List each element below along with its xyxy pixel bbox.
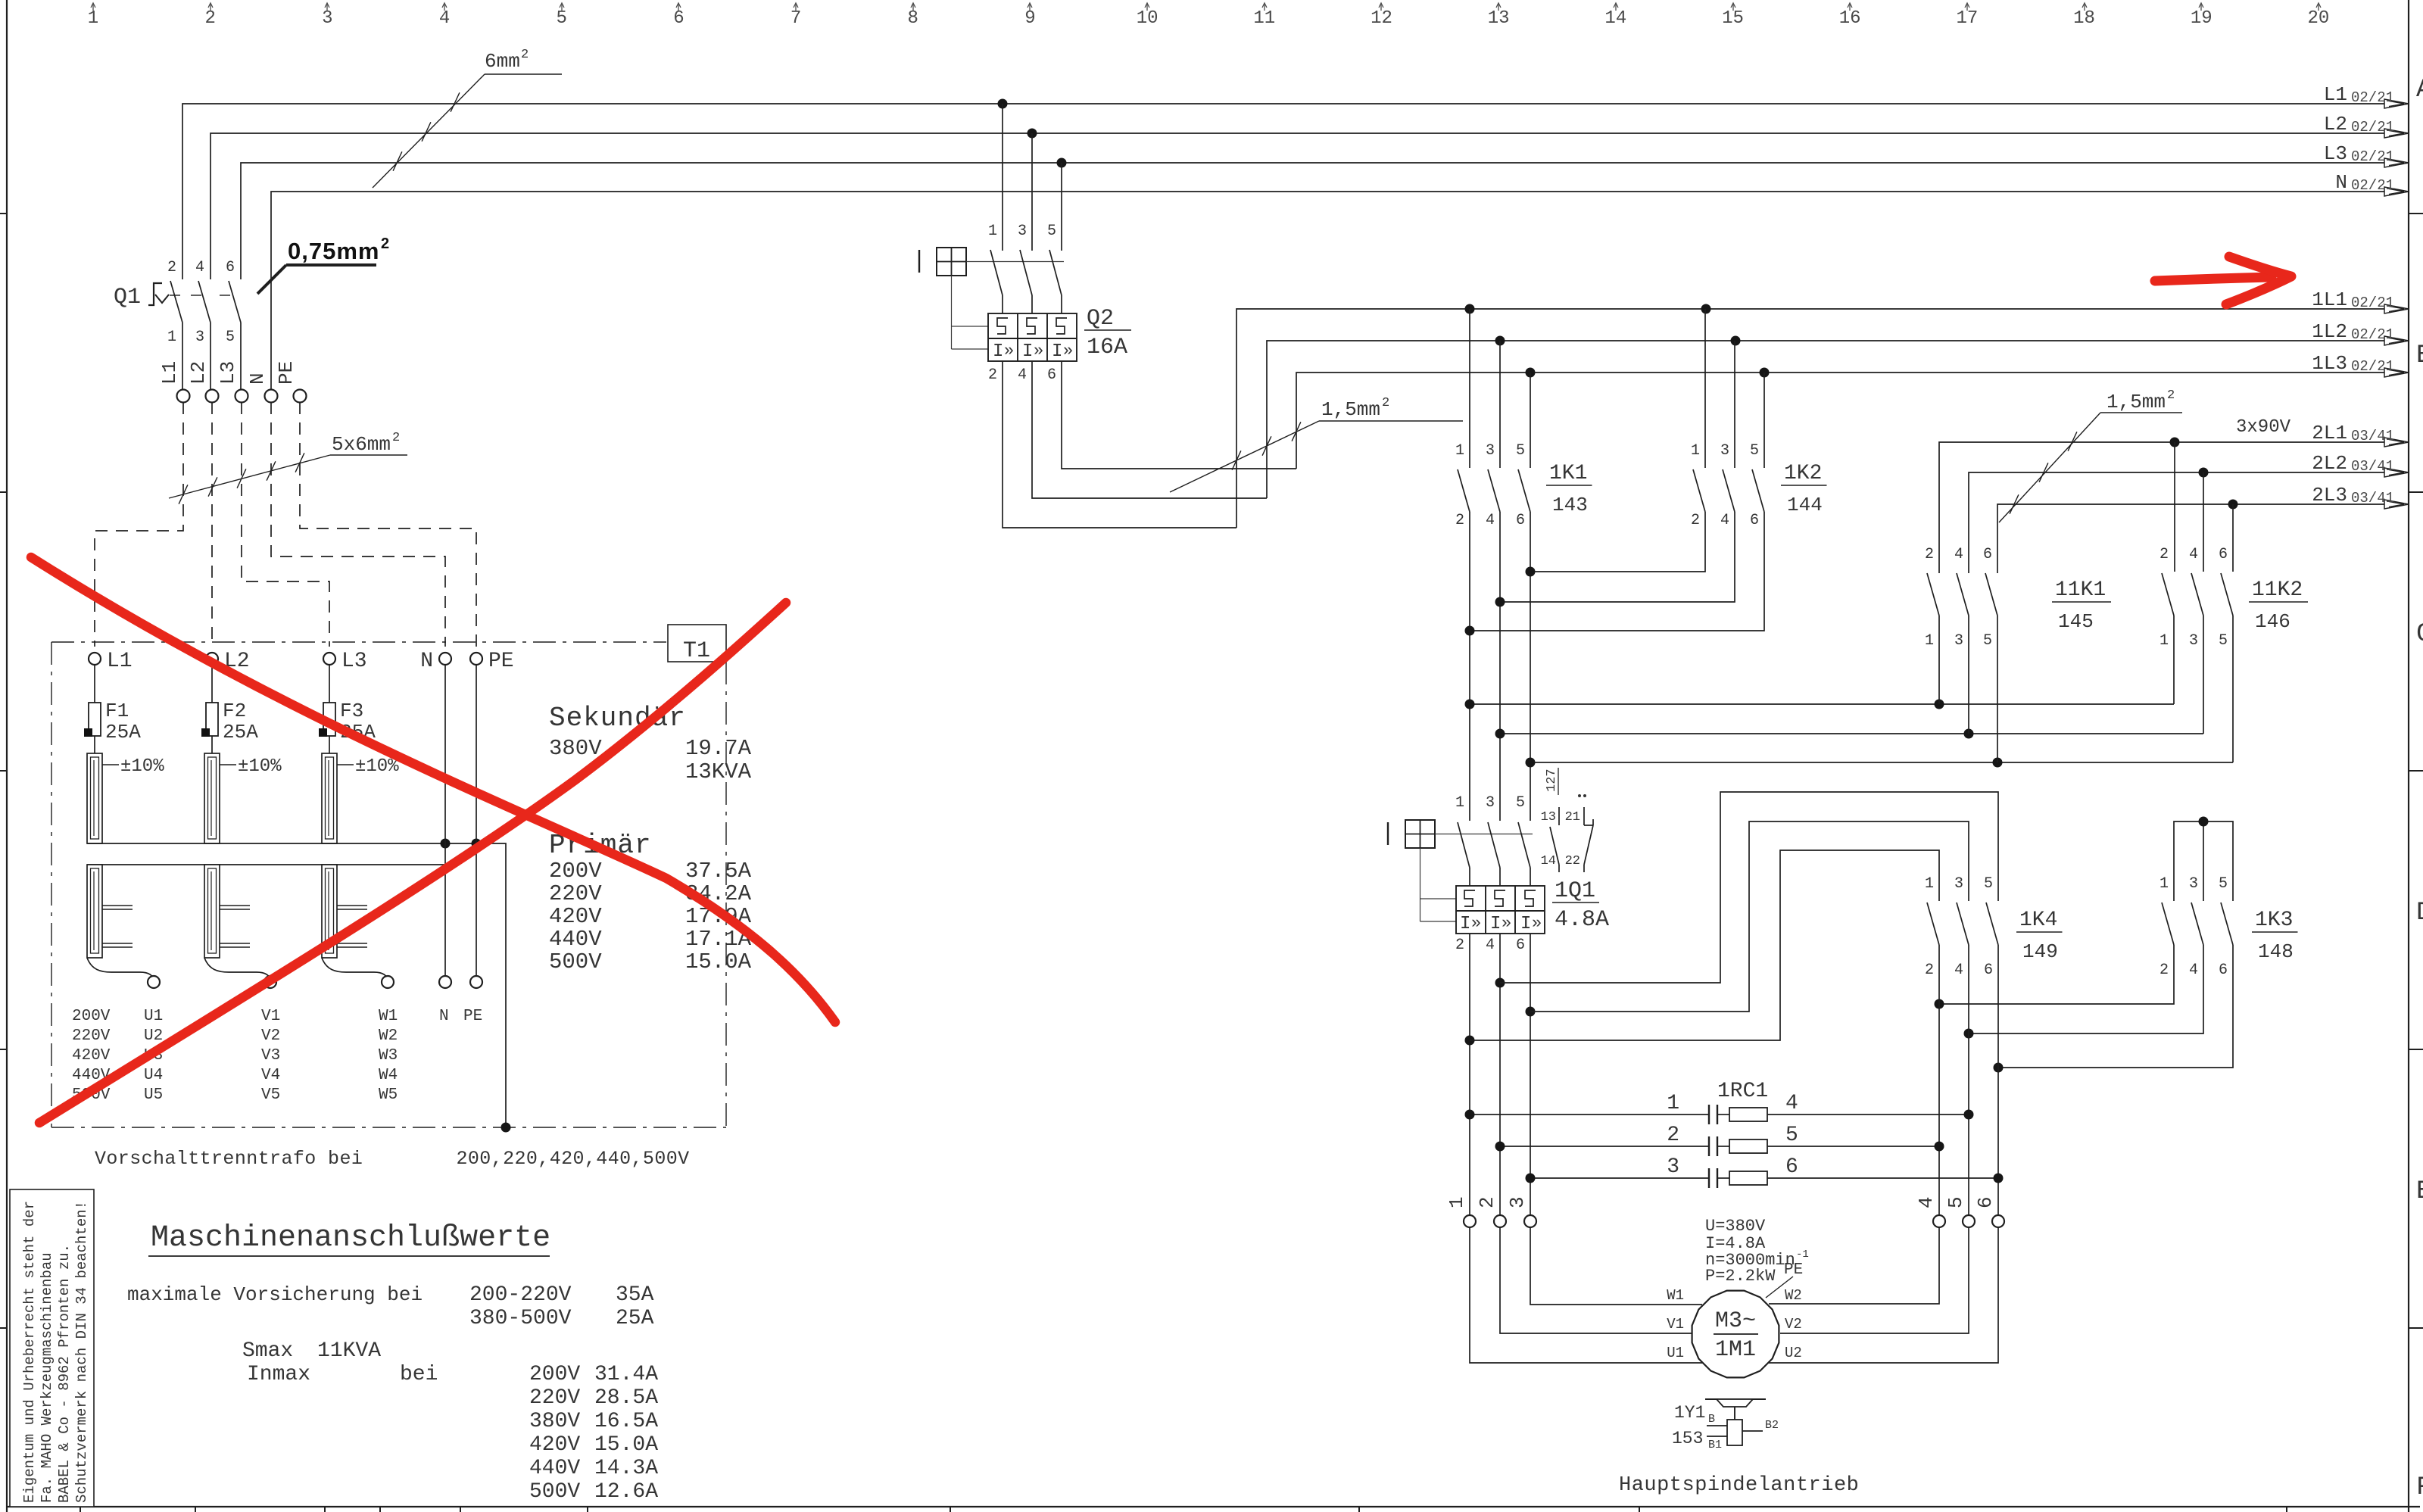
property note box [10, 1189, 94, 1507]
wire 1Q1-2 to 1K4 pin1 [1470, 850, 1939, 1040]
transformer primary winding 1 [87, 753, 102, 843]
svg-text:Schutzvermerk nach DIN 34 beac: Schutzvermerk nach DIN 34 beachten! [73, 1201, 90, 1503]
svg-text:2: 2 [1667, 1124, 1679, 1147]
svg-text:3x90V: 3x90V [2236, 417, 2291, 438]
Q2 pole 3 thermal element [1056, 318, 1067, 334]
junction at T1 box bottom [501, 1123, 511, 1133]
contactor 1K4 pole 2 blade [1957, 903, 1969, 945]
svg-text:18: 18 [2073, 8, 2095, 29]
svg-text:6: 6 [1750, 512, 1759, 529]
dashed wire PE to T1 [300, 402, 476, 647]
contactor 11K2 pole 3 blade [2221, 573, 2233, 616]
svg-text:7: 7 [791, 8, 801, 29]
terminal circle PE [294, 390, 307, 403]
svg-text:16.5A: 16.5A [594, 1410, 658, 1433]
svg-text:6: 6 [226, 259, 235, 276]
contactor 1K4 pole 1 blade [1927, 903, 1939, 945]
RC branch 3-6 wire [1530, 1177, 1709, 1179]
Q2 pole 2 blade [1020, 250, 1032, 295]
svg-text:B2: B2 [1765, 1419, 1779, 1432]
svg-text:W1: W1 [1667, 1287, 1684, 1304]
annotation 1,5mm2 leader (2L wires) [1999, 413, 2100, 522]
svg-text:Maschinenanschlußwerte: Maschinenanschlußwerte [151, 1221, 550, 1255]
svg-text:F3: F3 [340, 700, 363, 722]
wire bus 1L2 [1267, 341, 2409, 498]
svg-text:C: C [2416, 620, 2423, 649]
svg-text:2: 2 [1455, 937, 1464, 954]
svg-text:1: 1 [1691, 442, 1700, 460]
svg-text:02/21: 02/21 [2351, 295, 2394, 311]
svg-text:11KVA: 11KVA [317, 1339, 381, 1363]
junction L3/Q2 [1057, 158, 1067, 168]
svg-text:2: 2 [521, 48, 529, 62]
svg-text:U1: U1 [144, 1008, 163, 1025]
svg-text:I: I [1460, 914, 1470, 934]
wire 1Q1-4 to 1K4 pin5 [1500, 792, 1998, 983]
wire 1Q1 pin2 down to motor terminal 1 [1469, 934, 1470, 1215]
arrow 1L1 to 02/21 [2384, 304, 2409, 313]
wire L feed to Q2 pin 5 [1061, 163, 1062, 251]
svg-text:A: A [2416, 76, 2423, 104]
svg-text:1K2: 1K2 [1784, 462, 1822, 485]
svg-text:21: 21 [1565, 810, 1580, 825]
1Q1 operator square [1405, 820, 1435, 848]
Q1 actuator symbol [148, 283, 162, 305]
svg-text:PE: PE [488, 650, 514, 673]
svg-text:2L1: 2L1 [2312, 422, 2347, 444]
transformer T1 dashed enclosure [51, 641, 666, 643]
svg-text:4: 4 [1954, 546, 1963, 563]
1Q1 pole 2 blade [1488, 822, 1500, 868]
svg-text:1Q1: 1Q1 [1555, 878, 1595, 904]
svg-text:12.6A: 12.6A [594, 1480, 658, 1504]
junction 2L2/11K2 [2199, 468, 2209, 478]
svg-text:145: 145 [2058, 610, 2094, 633]
svg-text:L1: L1 [158, 361, 181, 385]
svg-text:3: 3 [1506, 1196, 1529, 1208]
red cross-out stroke 1 [31, 557, 835, 1022]
arrow N to 02/21 [2384, 187, 2409, 196]
svg-text:3: 3 [1667, 1155, 1679, 1179]
svg-text:4: 4 [1018, 366, 1027, 384]
svg-text:220V: 220V [72, 1027, 111, 1045]
contactor 1K1 pole 3 blade [1518, 469, 1530, 512]
wire 1K1 outputs down-column 6 [1530, 512, 1531, 821]
Q2 trip linkage [951, 276, 953, 349]
svg-text:P=2.2kW: P=2.2kW [1705, 1267, 1776, 1286]
annotation 1,5mm2 leader (Q2 wires) [1170, 421, 1319, 492]
svg-text:220V: 220V [529, 1386, 580, 1410]
svg-text:4: 4 [1785, 1092, 1798, 1115]
wire bus L2 [210, 133, 2409, 279]
svg-text:B: B [1708, 1413, 1715, 1426]
wire bus L3 [241, 163, 2409, 279]
motor PE leader [1766, 1277, 1793, 1298]
transformer secondary winding 3 [322, 865, 337, 958]
1Q1 pole 1 thermal element [1464, 890, 1475, 906]
svg-text:B1: B1 [1708, 1439, 1722, 1451]
svg-text:5: 5 [1516, 794, 1525, 812]
contactor 1K3 pole 3 blade [2221, 903, 2233, 945]
junction PE primary [472, 839, 482, 849]
secondary winding 1 taps [102, 905, 133, 906]
dashed wire L1 to T1 [95, 402, 183, 647]
contactor 11K2 pole 2 blade [2191, 573, 2203, 616]
dashed wire N to T1 [271, 402, 445, 647]
wire terminal 6 to motor U2 [1769, 1227, 1998, 1363]
wire 1K4 pin2 down to terminal 4 [1938, 945, 1940, 1215]
wire bus 2L3 [1997, 504, 2409, 573]
svg-text:25A: 25A [105, 721, 141, 744]
svg-text:W5: W5 [379, 1086, 398, 1104]
1Q1 trip linkage [1420, 848, 1421, 921]
svg-text:02/21: 02/21 [2351, 89, 2394, 106]
svg-text:W4: W4 [379, 1067, 398, 1084]
svg-text:5: 5 [2219, 875, 2228, 893]
svg-text:1Y1: 1Y1 [1674, 1403, 1705, 1423]
wire 1K3 pin6 to column6 [1998, 945, 2233, 1068]
resistor branch 2 [1729, 1139, 1767, 1153]
wire 1K1 outputs down-column 2 [1469, 512, 1470, 821]
svg-text:maximale Vorsicherung bei: maximale Vorsicherung bei [127, 1283, 423, 1306]
wire terminal 2 to motor V1 [1500, 1227, 1692, 1333]
svg-text:03/41: 03/41 [2351, 428, 2394, 444]
svg-text:U5: U5 [144, 1086, 163, 1104]
svg-text:13KVA: 13KVA [685, 759, 752, 784]
svg-text:11K2: 11K2 [2252, 578, 2303, 602]
annotation 5x6mm2 leader [169, 455, 330, 498]
svg-text:U2: U2 [144, 1027, 163, 1045]
T1 input terminal L2 [206, 653, 218, 665]
svg-text:»: » [1004, 341, 1014, 360]
svg-text:1L1: 1L1 [2312, 288, 2347, 311]
svg-text:Hauptspindelantrieb: Hauptspindelantrieb [1619, 1474, 1859, 1497]
svg-text:V3: V3 [261, 1047, 280, 1065]
Q2 I indicator [918, 250, 920, 273]
wire 1Q1-6 to 1K4 pin3 [1530, 821, 1969, 1012]
terminal 2 [1494, 1215, 1506, 1227]
svg-text:03/41: 03/41 [2351, 458, 2394, 475]
terminal 3 [1524, 1215, 1536, 1227]
svg-text:»: » [1532, 914, 1542, 933]
svg-text:V4: V4 [261, 1067, 280, 1084]
svg-text:W1: W1 [379, 1008, 398, 1025]
svg-text:3: 3 [1954, 632, 1963, 650]
wire 1K2 pin5 from 1L3 [1763, 373, 1765, 468]
wire 11K2 feed pin6 [2232, 504, 2234, 572]
svg-text:1L3: 1L3 [2312, 352, 2347, 375]
svg-text:V1: V1 [261, 1008, 280, 1025]
wire PE through T1 [476, 665, 477, 976]
wire 1K2 pin4 to 1K1 column4 [1500, 512, 1735, 602]
svg-text:I: I [1022, 341, 1033, 362]
svg-text:1: 1 [1667, 1092, 1679, 1115]
svg-text:N: N [246, 373, 269, 385]
column ruler numbers 1-20 with arrow ticks [88, 3, 2330, 29]
contactor 1K1 pole 2 blade [1488, 469, 1500, 512]
1Q1 pole 2 thermal element [1495, 890, 1505, 906]
drawing frame right border [2408, 0, 2409, 1512]
transformer secondary winding 2 [204, 865, 220, 958]
svg-text:4: 4 [1720, 512, 1729, 529]
wire 1K3 feed bracket [2174, 821, 2233, 901]
svg-text:3: 3 [2189, 875, 2198, 893]
svg-text:I: I [1490, 914, 1501, 934]
svg-text:3: 3 [1720, 442, 1729, 460]
svg-text:V2: V2 [261, 1027, 280, 1045]
svg-text:V1: V1 [1667, 1316, 1684, 1333]
svg-text:3: 3 [1486, 442, 1495, 460]
1Q1 breaker box [1456, 886, 1545, 934]
svg-text:380-500V: 380-500V [469, 1307, 572, 1330]
contactor 1K2 pole 3 blade [1752, 469, 1764, 512]
svg-text:1: 1 [988, 223, 997, 240]
terminal circle L2 [206, 390, 219, 403]
terminal 4 [1933, 1215, 1945, 1227]
annotation 0,75mm2 leader (bold) [257, 265, 286, 294]
wire 1K1 pin1 from 1L1 [1469, 309, 1470, 468]
svg-text:2: 2 [204, 8, 215, 29]
svg-text:03/41: 03/41 [2351, 490, 2394, 507]
contactor 1K1 pole 1 blade [1458, 469, 1470, 512]
wire bus 2L2 [1969, 472, 2409, 573]
svg-text:200V: 200V [549, 859, 602, 884]
svg-text:-1: -1 [1796, 1249, 1809, 1261]
terminal 5 [1963, 1215, 1975, 1227]
junction 2L3/11K2 [2228, 500, 2238, 510]
arrow L1 to 02/21 [2384, 99, 2409, 108]
svg-text:1M1: 1M1 [1715, 1337, 1756, 1363]
svg-text:6mm: 6mm [485, 50, 520, 73]
svg-text:1,5mm: 1,5mm [2106, 391, 2166, 413]
junction 1L2 x=1981 [1495, 336, 1505, 346]
Q2 pole 1 blade [990, 250, 1003, 295]
svg-text:153: 153 [1672, 1429, 1703, 1448]
wire 11K2 pin1 to row [2173, 616, 2175, 704]
capacitor plates branch 2 [1708, 1136, 1710, 1156]
junction 11K1 pin1/row [1935, 700, 1944, 709]
wire secondary 3 to output [322, 958, 388, 981]
svg-text:500V: 500V [529, 1480, 580, 1504]
fuse F3 25A [329, 665, 330, 703]
svg-text:200V: 200V [72, 1008, 111, 1025]
wire 1K2 pin1 from 1L1 [1704, 309, 1706, 468]
wire L feed to Q2 pin 3 [1031, 133, 1033, 251]
svg-text:19.7A: 19.7A [685, 736, 752, 761]
svg-text:25A: 25A [616, 1307, 654, 1330]
svg-text:3: 3 [2189, 632, 2198, 650]
svg-text:L3: L3 [341, 650, 367, 673]
svg-text:22: 22 [1565, 854, 1580, 868]
svg-text:5: 5 [1785, 1124, 1798, 1147]
svg-text:4: 4 [2189, 546, 2198, 563]
wire 1K2 pin2 to 1K1 column6 [1530, 512, 1705, 572]
svg-text:Q1: Q1 [114, 285, 141, 310]
svg-text:1K3: 1K3 [2255, 909, 2293, 932]
junction L1/Q2 [998, 99, 1008, 109]
dashed wire L2 to T1 [211, 402, 213, 647]
T1 label box [668, 625, 726, 662]
svg-text:5: 5 [1983, 632, 1992, 650]
svg-text:3: 3 [322, 8, 332, 29]
svg-text:N: N [2335, 171, 2347, 194]
svg-text:2: 2 [2159, 962, 2169, 979]
RC branch 1-4 wire [1470, 1114, 1709, 1115]
junction 11K1 pin3/row [1964, 729, 1974, 739]
wire Q2 pin6 to 1L3 [1062, 361, 1296, 469]
title block column ticks on bottom border [80, 1507, 2287, 1512]
svg-text:16: 16 [1839, 8, 1861, 29]
wire terminal 1 to motor U1 [1470, 1227, 1702, 1363]
arrow L3 to 02/21 [2384, 158, 2409, 167]
svg-text:D: D [2416, 899, 2423, 927]
svg-text:14: 14 [1604, 8, 1626, 29]
row letters A-F on right border [2416, 76, 2423, 1502]
svg-text:0,75mm: 0,75mm [288, 238, 379, 264]
contactor 11K2 pole 1 blade [2162, 573, 2174, 616]
svg-text:2: 2 [167, 259, 176, 276]
resistor branch 1 [1729, 1108, 1767, 1121]
svg-text:148: 148 [2258, 940, 2294, 963]
contactor 1K2 pole 1 blade [1693, 469, 1705, 512]
RC branch 1-4 wire right [1767, 1114, 1969, 1115]
T1 input terminal N [439, 653, 451, 665]
contactor 11K1 pole 1 blade [1927, 573, 1939, 616]
capacitor plates branch 1 [1708, 1105, 1710, 1124]
Q2 breaker box [988, 313, 1077, 361]
svg-text:5: 5 [2219, 632, 2228, 650]
svg-text:2: 2 [1382, 396, 1389, 410]
terminal circle L3 [235, 390, 248, 403]
wire secondary 2 to output [204, 958, 270, 981]
svg-text:6: 6 [1047, 366, 1056, 384]
svg-text:±10%: ±10% [238, 756, 282, 777]
svg-text:16A: 16A [1087, 335, 1127, 360]
svg-text:440V: 440V [529, 1457, 580, 1480]
junction N primary [441, 839, 451, 849]
svg-text:3: 3 [1954, 875, 1963, 893]
T1 output terminal N [439, 976, 451, 988]
wire 1K4 pin4 down to terminal 5 [1968, 945, 1969, 1215]
transformer primary winding 3 [322, 753, 337, 843]
svg-text:»: » [1471, 914, 1481, 933]
svg-text:37.5A: 37.5A [685, 859, 752, 884]
svg-text:2: 2 [381, 235, 389, 252]
svg-text:B: B [2416, 341, 2423, 370]
svg-text:L1: L1 [2324, 83, 2347, 106]
contactor 11K1 pole 3 blade [1985, 573, 1997, 616]
T1 output terminal 1 [148, 976, 160, 988]
property note text [21, 1201, 90, 1503]
svg-text:2: 2 [392, 431, 400, 445]
svg-text:F2: F2 [223, 700, 246, 722]
motor data text [1705, 1217, 1809, 1286]
wire N through T1 [444, 665, 446, 976]
junction 1Q1-6 branch [1526, 1007, 1536, 1017]
svg-text:»: » [1034, 341, 1043, 360]
svg-text:1: 1 [167, 329, 176, 346]
contactor 1K3 pole 2 blade [2191, 903, 2203, 945]
svg-text:V5: V5 [261, 1086, 280, 1104]
Q1 pole L1 contact blade [170, 281, 182, 323]
arrow 2L2 to 03/41 [2384, 468, 2409, 477]
svg-text:420V: 420V [549, 904, 602, 929]
junction 1L3 x=2330 [1760, 368, 1770, 378]
svg-text:10: 10 [1137, 8, 1158, 29]
resistor branch 3 [1729, 1171, 1767, 1185]
junction 1L1 x=2253 [1701, 304, 1711, 314]
svg-text:L2: L2 [187, 361, 210, 385]
wire bus L1 [182, 104, 2409, 279]
svg-text:3: 3 [195, 329, 204, 346]
wire Q2 pin4 to 1L2 [1032, 361, 1267, 498]
svg-text:M3~: M3~ [1715, 1308, 1756, 1334]
svg-text:14: 14 [1541, 854, 1556, 868]
svg-text:1: 1 [1925, 875, 1934, 893]
svg-text:»: » [1502, 914, 1511, 933]
svg-text:200V: 200V [529, 1363, 580, 1386]
svg-text:5: 5 [1750, 442, 1759, 460]
annotation 6mm2 leader [373, 74, 485, 188]
terminal circle L1 [177, 390, 190, 403]
svg-text:420V: 420V [72, 1047, 111, 1065]
svg-text:U4: U4 [144, 1067, 163, 1084]
T1 output terminal 2 [264, 976, 276, 988]
svg-text:±10%: ±10% [355, 756, 399, 777]
wire row y=930 from 1K1 column to 11K2 [1470, 703, 2174, 705]
svg-text:N: N [420, 650, 433, 673]
svg-text:9: 9 [1024, 8, 1035, 29]
svg-text:6: 6 [1974, 1196, 1997, 1208]
svg-text:35A: 35A [616, 1283, 654, 1307]
svg-text:5: 5 [557, 8, 567, 29]
svg-text:4: 4 [1486, 512, 1495, 529]
svg-text:1: 1 [1925, 632, 1934, 650]
svg-text:11: 11 [1253, 8, 1275, 29]
Q1 pole L3 contact blade [229, 281, 241, 323]
T1 output tap labels [72, 1008, 482, 1104]
fuse F2 25A [211, 665, 213, 703]
svg-text:1: 1 [1445, 1196, 1468, 1208]
T1 output terminal PE [470, 976, 482, 988]
svg-text:380V: 380V [529, 1410, 580, 1433]
Q2 pole 1 thermal element [997, 318, 1008, 334]
svg-text:4.8A: 4.8A [1555, 907, 1609, 933]
svg-text:31.4A: 31.4A [594, 1363, 658, 1386]
arrow 1L2 to 02/21 [2384, 336, 2409, 345]
drawing frame left border [6, 0, 8, 1512]
svg-text:4: 4 [439, 8, 450, 29]
wire primary star bus [87, 843, 506, 1127]
svg-text:127: 127 [1545, 768, 1559, 792]
Q2 pole 2 thermal element [1027, 318, 1037, 334]
svg-text:2: 2 [1925, 962, 1934, 979]
junction 1L1 x=1941 [1465, 304, 1475, 314]
Q1 pole L2 contact blade [198, 281, 210, 323]
wire row y=1007 from 1K1 column to 11K2 [1530, 762, 2233, 763]
left border row tick marks [0, 214, 7, 1328]
wire 11K2 feed pin4 [2203, 472, 2204, 572]
svg-text:13: 13 [1488, 8, 1510, 29]
svg-text:Eigentum und Urheberrecht steh: Eigentum und Urheberrecht steht der [21, 1201, 38, 1503]
svg-text:02/21: 02/21 [2351, 177, 2394, 194]
transformer primary winding 2 [204, 753, 220, 843]
svg-text:2: 2 [2167, 388, 2175, 403]
wire 1K1 pin3 from 1L2 [1499, 341, 1501, 468]
label ±10% for winding 2 [220, 764, 236, 765]
wire 1K3 pin2 to column4 [1939, 945, 2174, 1004]
wire 11K1 pin3 to row [1968, 616, 1969, 734]
